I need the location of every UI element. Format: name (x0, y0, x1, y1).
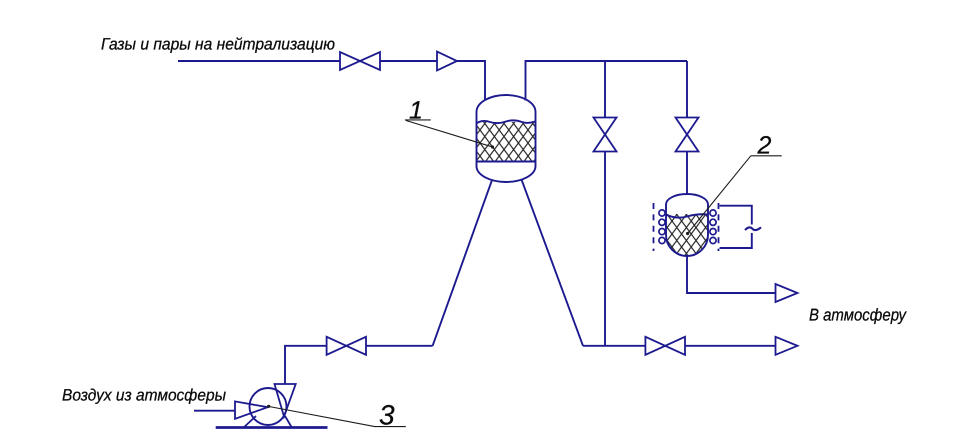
svg-text:1: 1 (409, 97, 423, 125)
svg-text:2: 2 (757, 132, 772, 160)
svg-text:В атмосферу: В атмосферу (809, 305, 907, 324)
svg-text:Газы и пары на нейтрализацию: Газы и пары на нейтрализацию (101, 36, 335, 54)
svg-text:Воздух из атмосферы: Воздух из атмосферы (62, 387, 226, 405)
svg-text:3: 3 (379, 399, 395, 430)
